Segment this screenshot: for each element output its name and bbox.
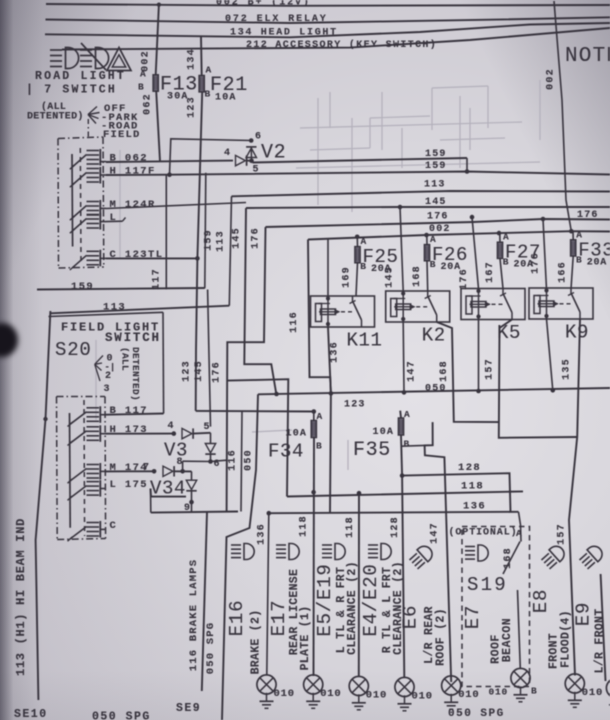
svg-text:159: 159 [425,161,447,172]
svg-text:B: B [138,82,144,93]
svg-text:ROAD LIGHT: ROAD LIGHT [35,70,126,83]
svg-text:E6: E6 [400,605,422,629]
svg-text:S20: S20 [55,339,92,361]
svg-text:(OPTIONAL): (OPTIONAL) [449,527,518,539]
svg-text:DETENTED): DETENTED) [130,347,141,401]
svg-text:E4/E20: E4/E20 [360,563,382,636]
svg-text:PLATE (1): PLATE (1) [299,606,312,671]
svg-text:L/R FRONT: L/R FRONT [594,609,607,674]
svg-text:M 124R: M 124R [110,199,156,211]
svg-text:157: 157 [557,523,568,545]
svg-text:118: 118 [461,481,484,493]
svg-text:A: A [404,409,410,420]
svg-text:145: 145 [425,197,447,208]
svg-text:118: 118 [299,515,310,537]
svg-text:10A: 10A [373,427,395,438]
svg-text:176: 176 [212,361,223,383]
svg-text:K11: K11 [347,330,383,352]
svg-text:123: 123 [187,96,198,118]
svg-text:B: B [316,441,322,452]
svg-text:113: 113 [216,230,227,252]
svg-text:A: A [317,411,323,422]
svg-text:072 ELX RELAY: 072 ELX RELAY [225,14,328,25]
svg-text:113 (H1) HI BEAM IND: 113 (H1) HI BEAM IND [14,518,28,676]
svg-text:113: 113 [103,302,126,314]
svg-text:E5/E19: E5/E19 [314,563,336,636]
svg-text:3: 3 [104,384,110,395]
svg-text:050: 050 [244,449,255,471]
svg-text:159: 159 [425,149,447,160]
svg-text:176: 176 [577,210,599,221]
svg-text:20A: 20A [441,262,461,273]
svg-text:010: 010 [320,688,341,700]
svg-text:128: 128 [458,462,481,474]
svg-text:SWITCH: SWITCH [105,331,161,345]
svg-text:010: 010 [274,688,295,700]
svg-text:134: 134 [187,48,198,70]
svg-text:E8: E8 [530,589,552,613]
svg-text:002: 002 [546,68,557,90]
svg-text:F34: F34 [268,441,304,463]
svg-text:K9: K9 [565,322,589,344]
svg-text:| 7 SWITCH: | 7 SWITCH [26,84,117,97]
svg-text:136: 136 [463,501,486,513]
svg-text:123: 123 [344,400,366,411]
svg-text:10A: 10A [286,429,308,440]
svg-text:BRAKE (2): BRAKE (2) [250,610,263,675]
svg-text:E7: E7 [462,605,484,629]
svg-text:ROOF (2): ROOF (2) [435,608,448,666]
svg-text:20A: 20A [587,257,607,268]
svg-text:010: 010 [412,691,433,703]
svg-text:30A: 30A [167,92,189,103]
svg-text:176: 176 [251,227,262,249]
svg-text:4: 4 [224,148,230,159]
svg-text:167: 167 [485,261,496,283]
svg-text:10A: 10A [215,93,237,104]
svg-text:159: 159 [204,229,215,251]
svg-text:B: B [531,686,537,697]
svg-text:2: 2 [105,371,111,382]
svg-text:118: 118 [345,516,356,538]
svg-text:145: 145 [232,227,243,249]
svg-text:147: 147 [430,522,441,544]
svg-text:K5: K5 [497,322,521,344]
svg-text:4: 4 [168,421,174,432]
svg-text:K2: K2 [422,325,446,347]
svg-text:C: C [110,520,118,532]
svg-text:168: 168 [503,547,514,569]
svg-text:145: 145 [194,360,205,382]
svg-text:(ALL: (ALL [120,347,131,371]
svg-text:010: 010 [366,690,387,702]
svg-text:CLEARANCE (2): CLEARANCE (2) [346,561,359,655]
svg-text:002 B+ (12V): 002 B+ (12V) [216,0,311,9]
svg-text:A: A [140,69,146,80]
svg-text:136: 136 [257,523,268,545]
svg-text:166: 166 [558,261,569,283]
svg-text:BEACON: BEACON [501,618,514,662]
svg-text:136: 136 [330,341,341,363]
svg-text:FIELD: FIELD [103,129,141,141]
svg-text:157: 157 [485,358,496,380]
svg-text:123: 123 [182,360,193,382]
svg-text:145: 145 [385,266,396,288]
svg-text:134 HEAD LIGHT: 134 HEAD LIGHT [230,28,338,39]
svg-text:SE9: SE9 [176,702,201,715]
svg-text:062: 062 [143,93,154,115]
svg-text:159: 159 [71,281,94,293]
svg-text:117: 117 [152,268,163,290]
svg-text:176: 176 [459,268,470,290]
svg-text:S19: S19 [467,574,508,596]
svg-text:F35: F35 [353,439,391,462]
svg-text:010: 010 [582,687,603,699]
svg-text:8: 8 [177,457,183,468]
svg-text:FLOOD(4): FLOOD(4) [560,610,573,668]
svg-text:116: 116 [228,449,239,471]
svg-text:050 SPG: 050 SPG [92,711,151,720]
svg-text:NOTE: NOTE [565,45,610,68]
svg-text:135: 135 [562,358,573,380]
svg-text:SE10: SE10 [14,708,48,720]
svg-text:169: 169 [342,266,353,288]
svg-text:5: 5 [204,422,210,433]
svg-text:050 SPG: 050 SPG [205,622,217,675]
svg-text:176: 176 [531,252,542,274]
svg-text:116 BRAKE LAMPS: 116 BRAKE LAMPS [188,559,200,672]
svg-text:116: 116 [289,311,300,333]
svg-text:E16: E16 [226,600,248,637]
svg-text:050 SPG: 050 SPG [448,708,505,720]
svg-text:L 175: L 175 [110,479,149,491]
svg-text:128: 128 [390,516,401,538]
svg-text:E9: E9 [573,602,595,626]
svg-text:050: 050 [425,384,447,395]
svg-text:010: 010 [488,687,508,698]
svg-text:168: 168 [439,360,450,382]
svg-text:212 ACCESSORY (KEY SWITCH): 212 ACCESSORY (KEY SWITCH) [246,39,437,51]
svg-text:E17: E17 [268,600,290,637]
svg-text:176: 176 [427,212,449,223]
svg-text:113: 113 [424,180,446,191]
svg-text:147: 147 [407,360,418,382]
svg-text:B: B [404,439,410,450]
svg-text:010: 010 [458,689,479,701]
svg-text:DETENTED): DETENTED) [27,111,84,123]
svg-text:168: 168 [412,265,423,287]
